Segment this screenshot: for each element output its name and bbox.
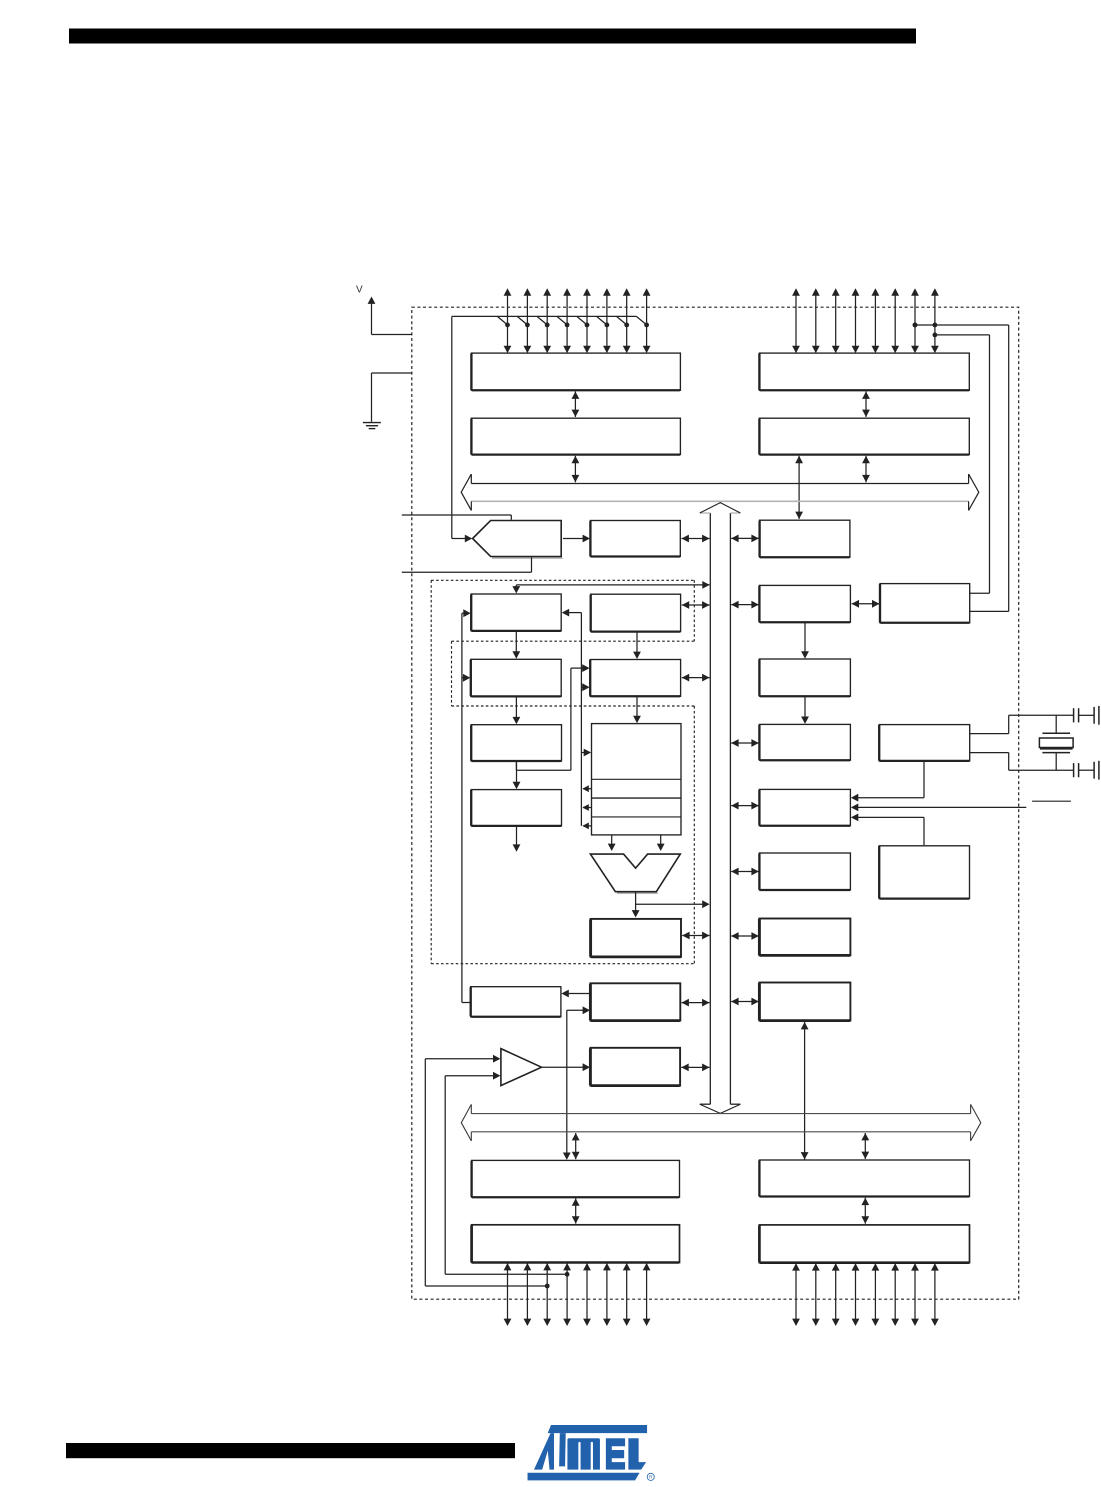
lower 8-bit data bus (hollow arrow) — [471, 1113, 970, 1115]
box: INTERRUPT UNIT — [759, 853, 850, 890]
crystal Y1 — [1055, 715, 1057, 733]
box: SPI — [590, 983, 680, 1020]
CPU inner dashed region — [452, 640, 695, 642]
wire: AIN0 to comparator + — [425, 1058, 495, 1060]
wire: PORTB - SPI — [567, 1009, 585, 1011]
wire: interrupt unit - vertical bus — [731, 871, 759, 873]
box: USART — [759, 983, 850, 1021]
wire: timers - vertical bus — [731, 604, 759, 606]
PB2 junction dot (AIN0) — [545, 1284, 550, 1289]
box: INTERNAL OSCILLATOR — [759, 659, 850, 696]
box: GENERAL PURPOSE REGISTERS — [590, 660, 680, 697]
svg-text:V: V — [356, 285, 363, 296]
XTAL1 wire — [970, 733, 1009, 735]
Port A pin lines PA0-PA7 — [507, 290, 509, 352]
wire: lower bus - PORTD interface — [864, 1133, 866, 1159]
wire: SRAM - vertical bus — [682, 604, 710, 606]
Atmel logo — [528, 1425, 655, 1481]
wire: program counter - stack pointer — [563, 538, 585, 540]
wire: GP registers - register file — [636, 697, 638, 719]
box: MCU CTRL. AND TIMING — [759, 789, 850, 825]
wire: instruction decoder - GP registers (jog) — [515, 761, 517, 770]
VCC supply wire — [371, 300, 373, 335]
wire: MCU ctrl - vertical bus — [731, 805, 759, 807]
AVR CPU dashed region (outer) — [431, 579, 694, 581]
wire: program flash right input — [567, 612, 581, 614]
wire: instruction register - instruction decoder — [515, 697, 517, 720]
box: PORTD DRIVERS/BUFFERS — [759, 1225, 969, 1263]
wire: PORTC drivers - interface — [865, 392, 867, 418]
wire: Z register - indirect line — [583, 825, 592, 827]
box: OSCILLATOR CIRCUIT (XTAL) — [879, 725, 970, 761]
wire: ALU - status register — [635, 892, 637, 913]
wire: program flash - instruction register — [515, 632, 517, 654]
RESET overbar mark — [1032, 800, 1071, 802]
wire: comparator interface - vertical bus — [681, 1066, 709, 1068]
Port B pin lines PB0-PB7 — [507, 1264, 509, 1325]
Port A pin harness wire — [452, 315, 637, 317]
ALU (V shape) — [617, 892, 658, 894]
wire: oscillator - vertical bus — [731, 742, 759, 744]
wire: PORTC interface - TWI (pass through bus) — [798, 456, 800, 519]
box: INSTRUCTION DECODER — [471, 725, 561, 761]
wire: indirect line to GP registers — [581, 686, 584, 688]
chip boundary (dashed) — [412, 307, 1019, 1299]
wire: ALU - vertical bus — [636, 903, 705, 905]
wire: left feed to program flash — [462, 612, 466, 614]
TOSC2 loop wire from PC7 — [933, 333, 938, 338]
wire: USART - PORTD interface — [804, 1022, 806, 1160]
register file X Y Z (box) — [592, 724, 682, 835]
wire: PORTA drivers - interface — [574, 392, 576, 418]
analog comparator (triangle) — [501, 1049, 542, 1086]
wire: RESET-in to program counter top — [402, 514, 512, 516]
box: PORTB DIGITAL INTERFACE — [472, 1160, 680, 1197]
wire: indirect line into register file — [581, 752, 585, 754]
wire: timers - internal oscillator — [804, 623, 806, 654]
box: PORTD DIGITAL INTERFACE — [759, 1160, 969, 1197]
wire: PORTA interface - data bus — [574, 456, 576, 483]
wire: register file - ALU left — [611, 836, 613, 846]
wire: stack pointer - vertical bus — [682, 538, 710, 540]
svg-text:R: R — [649, 1475, 653, 1481]
GND wire — [372, 372, 412, 374]
box: SRAM — [591, 594, 681, 631]
box: PORTC DIGITAL INTERFACE — [759, 418, 969, 454]
wire: USART - vertical bus — [731, 1001, 759, 1003]
RESET input wire — [856, 806, 1026, 808]
wire: GP registers - vertical bus — [682, 677, 710, 679]
wire: external to program counter bottom — [402, 571, 532, 573]
wire: timers - timer oscillator — [852, 603, 880, 605]
box: PORTA DIGITAL INTERFACE — [471, 418, 680, 454]
box: PORTA DRIVERS/BUFFERS — [471, 353, 680, 390]
wire: AIN1 to comparator - — [445, 1075, 495, 1077]
box: PROGRAMMING LOGIC — [759, 919, 850, 956]
wire: watchdog - MCU ctrl — [923, 817, 925, 845]
box: STATUS REGISTER — [591, 919, 681, 957]
ground symbol — [363, 422, 381, 424]
wire: SRAM - general purpose registers — [636, 632, 638, 654]
wire: oscillator circuit - MCU ctrl — [923, 762, 925, 798]
upper 8-bit data bus (hollow arrow) — [471, 483, 968, 485]
capacitor C1 (XTAL1) — [1073, 708, 1075, 722]
wire: instruction decoder - control lines box — [516, 762, 518, 785]
wire: program flash top - vertical bus — [516, 584, 709, 586]
wire: SPI - vertical bus — [682, 1002, 710, 1004]
program counter feed wire (harness to PC tag) — [451, 316, 453, 538]
TOSC1 loop wire from PC6 — [913, 323, 918, 328]
wire: left feed line (vertical) — [461, 613, 463, 1002]
capacitor C2 (XTAL2) — [1073, 763, 1075, 777]
PB3 junction dot (AIN1) — [565, 1272, 570, 1277]
wire: internal osc - oscillator — [804, 697, 806, 719]
wire: register file - ALU right — [660, 836, 662, 846]
indirect addressing line (vertical) — [580, 613, 582, 826]
wire: status register - vertical bus — [682, 935, 709, 937]
box: OSCILLATOR — [759, 724, 850, 760]
box: OSC (timer oscillator) — [880, 584, 970, 623]
program counter tag (pentagon) — [492, 557, 563, 559]
box: PROGRAM FLASH — [471, 594, 561, 631]
page footer rule bar — [66, 1443, 515, 1458]
wire: X register - indirect line — [583, 788, 592, 790]
wire: lower bus - PORTB interface — [575, 1133, 577, 1159]
control lines free arrow — [516, 827, 518, 847]
wire: SPI - EEPROM — [566, 993, 590, 995]
wire: PORTB interface - drivers — [575, 1198, 577, 1223]
vertical 8-bit data bus (hollow arrow) — [709, 513, 711, 1104]
XTAL2 wire — [970, 752, 1009, 754]
wire: PORTD interface - drivers — [864, 1198, 866, 1224]
box: INSTRUCTION REGISTER — [471, 659, 561, 696]
box: EEPROM — [471, 987, 561, 1017]
box: PORTB DRIVERS/BUFFERS — [472, 1225, 680, 1263]
box: TIMERS/COUNTERS — [759, 585, 850, 622]
Port D pin lines PD0-PD7 — [795, 1264, 797, 1324]
wire: left feed to instruction register — [462, 677, 466, 679]
box: CONTROL LINES (instruction decoder out) — [471, 790, 561, 826]
Port C pin lines PC0-PC7 — [795, 290, 797, 352]
box: WATCHDOG TIMER — [879, 846, 969, 899]
box: TWI — [760, 520, 850, 557]
box: COMPARATOR INTERFACE — [590, 1048, 680, 1086]
wire: TWI - vertical bus — [731, 537, 759, 539]
wire: programming logic - vertical bus — [731, 935, 759, 937]
box: PORTC DRIVERS/BUFFERS — [759, 353, 969, 390]
page header rule bar — [69, 29, 916, 44]
wire: PORTC interface - data bus — [865, 456, 867, 483]
wire: comparator - interface — [542, 1066, 586, 1068]
box: STACK POINTER — [590, 521, 680, 557]
wire: Y register - indirect line — [583, 807, 592, 809]
